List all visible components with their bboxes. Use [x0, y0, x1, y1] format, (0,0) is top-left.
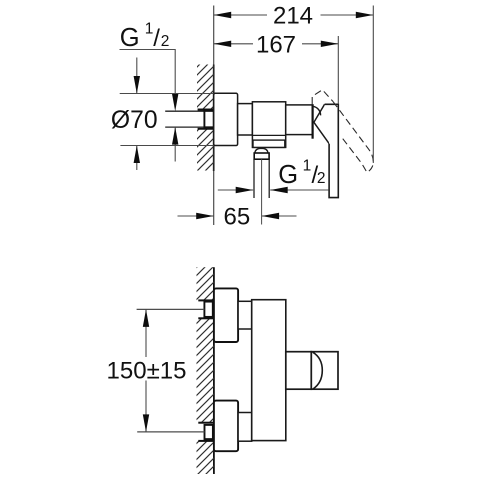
cone arc: [313, 106, 321, 115]
lever handle alternate position (dashed): [312, 90, 373, 173]
outlet pipe centerline: [261, 159, 263, 224]
wall hole edges top inlet: [198, 299, 214, 301]
top inlet fitting: [204, 302, 212, 317]
svg-text:1: 1: [303, 157, 312, 174]
extension line right end of 167 (lever top corner): [337, 36, 339, 104]
bottom supply centerline / extension: [137, 431, 204, 433]
wall line (bottom view): [213, 267, 215, 474]
outlet dome arc: [313, 352, 323, 389]
svg-text:/: /: [153, 25, 160, 52]
label G 1/2 (inlet): [120, 20, 170, 52]
wall hatching lower part: [197, 129, 214, 171]
svg-text:G: G: [278, 161, 298, 189]
inlet fitting: [204, 111, 213, 127]
wall hatching bottom view part 2: [197, 318, 214, 422]
wall line (top view, serves as extension line): [213, 6, 215, 65]
cone top slope: [314, 104, 329, 143]
union nut: [254, 153, 269, 159]
lever handle (solid, pointing down): [325, 104, 339, 197]
outlet cylinder: [286, 352, 312, 390]
mixer body (cartridge housing): [252, 102, 285, 148]
escutcheon (side view): [214, 93, 238, 145]
neck between escutcheon and body: [238, 104, 253, 135]
svg-text:2: 2: [317, 170, 326, 187]
bottom inlet fitting: [205, 425, 213, 439]
dimension 167: [214, 31, 339, 58]
wall hole edges bottom inlet: [198, 422, 214, 424]
extension line right end of 214 (dashed lever tip): [372, 6, 374, 164]
handle cone edge (thick): [312, 104, 314, 138]
body step line 2: [252, 139, 285, 141]
svg-text:Ø70: Ø70: [111, 107, 158, 134]
top neck: [238, 301, 252, 329]
dimension 214: [214, 3, 374, 30]
bottom escutcheon: [214, 401, 238, 452]
dimension 150+-15: [107, 309, 187, 432]
dimension 65: [178, 204, 297, 231]
dimension D70: [111, 58, 214, 171]
svg-text:2: 2: [161, 33, 170, 50]
leader for inlet G 1/2: [120, 50, 179, 162]
svg-text:G: G: [120, 24, 140, 52]
top supply centerline / extension: [137, 308, 205, 310]
outlet pipe: [253, 159, 255, 198]
wall hatching bottom view part 3: [197, 441, 214, 474]
mixer body plate (bottom view): [252, 300, 286, 441]
svg-text:150±15: 150±15: [107, 358, 187, 385]
label G 1/2 (outlet): [278, 157, 325, 189]
wall hatching upper part: [197, 65, 214, 111]
svg-text:65: 65: [224, 204, 251, 231]
wall hole edge upper: [198, 109, 214, 111]
union nut dome: [255, 148, 268, 153]
svg-text:167: 167: [256, 31, 296, 58]
wall hatching bottom view part 1: [197, 267, 214, 300]
top escutcheon: [214, 288, 238, 342]
svg-text:1: 1: [145, 20, 154, 37]
outlet G 1/2 dimension arrows: [218, 187, 329, 193]
bottom neck: [238, 413, 252, 442]
outlet cap: [311, 352, 338, 390]
body right section: [286, 105, 313, 135]
svg-text:214: 214: [273, 3, 313, 30]
outlet step block: [253, 140, 285, 147]
wall hole edge lower: [198, 128, 214, 130]
inlet supply pipe (behind wall): [165, 110, 204, 112]
body step line 1: [252, 134, 285, 136]
